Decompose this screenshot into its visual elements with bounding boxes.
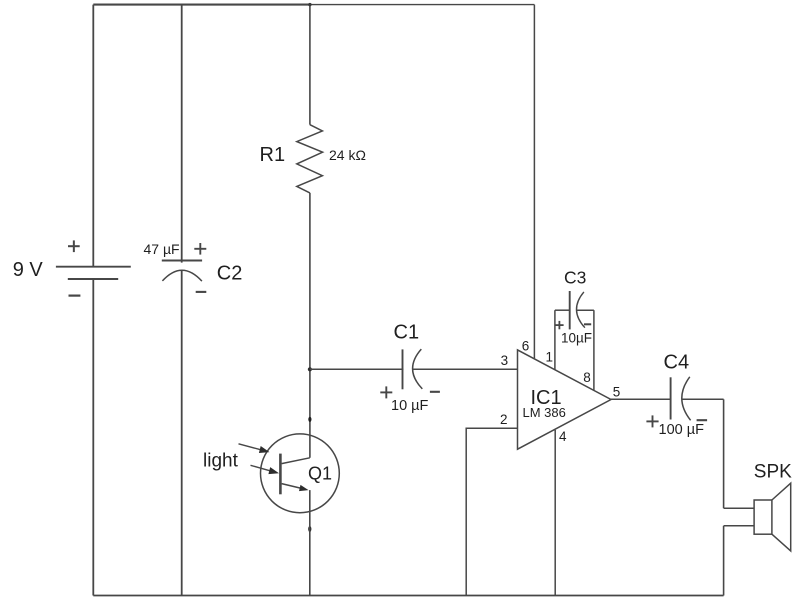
svg-text:24 kΩ: 24 kΩ <box>329 147 366 163</box>
wire C3 left lead <box>555 309 570 311</box>
node junction R1 / top rail <box>308 3 311 6</box>
svg-text:6: 6 <box>522 338 530 353</box>
wire bottom ground rail <box>93 595 723 597</box>
wire battery negative lead <box>92 278 94 595</box>
capacitor C4 <box>646 377 707 428</box>
wire top rail left segment <box>93 4 310 6</box>
transistor Q1 phototransistor <box>261 434 340 513</box>
speaker SPK <box>754 483 791 551</box>
svg-text:light: light <box>203 451 239 472</box>
svg-text:10 µF: 10 µF <box>391 398 429 414</box>
capacitor C2 <box>162 243 207 292</box>
node wire segment joint below Q1 <box>308 526 311 532</box>
wire pin 2 input <box>466 428 517 595</box>
wire speaker bottom lead <box>724 525 755 527</box>
wire C3 to pin 8 <box>593 310 595 390</box>
battery BT1 9V <box>56 240 131 295</box>
node junction R1 / C1 wire <box>308 367 312 371</box>
svg-text:3: 3 <box>501 353 509 368</box>
wire pin 4 to ground rail <box>554 430 556 596</box>
wire C4 to speaker top <box>682 398 724 400</box>
capacitor C3 <box>555 291 591 329</box>
svg-text:8: 8 <box>583 370 591 385</box>
svg-text:2: 2 <box>500 412 508 427</box>
svg-text:C1: C1 <box>394 321 420 343</box>
svg-text:47 µF: 47 µF <box>144 241 180 257</box>
light arrow 2 <box>251 465 280 474</box>
wire C3 right lead <box>577 309 594 311</box>
svg-text:LM 386: LM 386 <box>523 405 566 420</box>
svg-text:SPK: SPK <box>754 462 792 483</box>
wire C2 bottom lead <box>181 270 183 595</box>
light arrow 1 <box>239 444 270 453</box>
wire down to speaker top lead <box>723 399 725 508</box>
capacitor C1 <box>380 349 440 398</box>
wire pin 6 supply from top rail <box>533 5 535 359</box>
svg-text:Q1: Q1 <box>308 463 332 483</box>
svg-text:R1: R1 <box>260 144 286 166</box>
wire pin 5 output to C4 <box>611 398 671 400</box>
wire C1 to IC1 pin 3 <box>413 368 518 370</box>
wire Q1 emitter to ground rail <box>309 490 311 595</box>
svg-text:4: 4 <box>559 429 567 444</box>
op-amp IC1 LM386 <box>518 350 612 449</box>
wire speaker top lead <box>724 507 755 509</box>
wire R1 top lead <box>309 5 311 125</box>
svg-text:C3: C3 <box>564 268 586 288</box>
wire speaker return to ground rail <box>723 526 725 596</box>
node wire segment joint above Q1 <box>308 417 311 422</box>
svg-text:C4: C4 <box>664 352 690 374</box>
wire C2 top lead <box>181 5 183 263</box>
wire node to C1 left lead <box>310 368 404 370</box>
svg-text:10µF: 10µF <box>561 330 592 345</box>
wire pin 1 to C3 <box>554 310 556 369</box>
resistor R1 24k <box>297 125 323 193</box>
svg-text:C2: C2 <box>217 263 243 285</box>
svg-text:1: 1 <box>546 350 554 365</box>
svg-text:9 V: 9 V <box>13 259 44 281</box>
svg-text:5: 5 <box>613 384 621 399</box>
svg-text:100 µF: 100 µF <box>659 422 705 438</box>
wire R1 bottom to Q1 collector <box>309 193 311 458</box>
wire top rail right segment <box>311 4 535 6</box>
wire battery positive lead <box>92 5 94 268</box>
